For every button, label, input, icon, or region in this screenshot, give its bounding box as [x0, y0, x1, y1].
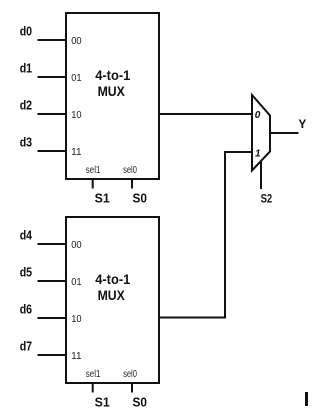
label U1 "4-to-1 MUX" — [95, 67, 130, 99]
svg-text:d4: d4 — [20, 228, 33, 243]
svg-text:10: 10 — [71, 314, 82, 325]
svg-text:d3: d3 — [20, 135, 32, 150]
wire d4 input — [38, 243, 67, 245]
svg-text:0: 0 — [255, 110, 261, 121]
wire d0 input — [38, 39, 67, 41]
svg-text:S1: S1 — [95, 396, 110, 410]
svg-text:00: 00 — [71, 240, 82, 251]
wire d5 input — [38, 280, 67, 282]
wire d3 input — [38, 150, 67, 152]
text cursor artifact — [305, 392, 308, 406]
svg-text:sel1: sel1 — [86, 369, 101, 380]
svg-text:4-to-1: 4-to-1 — [95, 271, 130, 287]
2-to-1 MUX U3 trapezoid — [252, 95, 270, 171]
svg-text:d2: d2 — [20, 98, 32, 113]
svg-text:00: 00 — [71, 36, 82, 47]
svg-text:11: 11 — [71, 351, 82, 362]
svg-text:MUX: MUX — [98, 287, 126, 303]
stub S1 (U1 sel1) — [92, 180, 94, 189]
4-to-1 MUX U2 body — [66, 217, 159, 383]
svg-text:S2: S2 — [261, 191, 273, 205]
svg-text:01: 01 — [71, 277, 82, 288]
svg-text:S0: S0 — [133, 192, 148, 206]
svg-text:sel1: sel1 — [86, 165, 101, 176]
wire d6 input — [38, 317, 67, 319]
wire U2 output to U3 input 1 — [159, 152, 252, 318]
svg-text:11: 11 — [71, 147, 82, 158]
label U2 "4-to-1 MUX" — [95, 271, 130, 303]
stub S0 (U1 sel0) — [131, 180, 133, 189]
stub S2 (U3 select) — [260, 162, 262, 189]
svg-text:4-to-1: 4-to-1 — [95, 67, 130, 83]
svg-text:d7: d7 — [20, 339, 32, 354]
svg-text:01: 01 — [71, 73, 82, 84]
4-to-1 MUX U1 body — [66, 13, 159, 179]
svg-text:Y: Y — [298, 117, 306, 131]
svg-text:S1: S1 — [95, 192, 110, 206]
svg-text:d6: d6 — [20, 302, 32, 317]
svg-text:1: 1 — [255, 148, 261, 159]
svg-text:MUX: MUX — [98, 83, 126, 99]
wire d1 input — [38, 76, 67, 78]
stub S0 (U2 sel0) — [131, 384, 133, 393]
svg-text:S0: S0 — [133, 396, 148, 410]
wire U1 output to U3 input 0 — [159, 113, 252, 115]
svg-text:d1: d1 — [20, 61, 32, 76]
wire d2 input — [38, 113, 67, 115]
svg-text:d0: d0 — [20, 24, 32, 39]
svg-text:d5: d5 — [20, 265, 32, 280]
wire d7 input — [38, 354, 67, 356]
svg-text:10: 10 — [71, 110, 82, 121]
output wire Y — [270, 132, 299, 134]
svg-text:sel0: sel0 — [123, 165, 137, 176]
svg-text:sel0: sel0 — [123, 369, 137, 380]
stub S1 (U2 sel1) — [92, 384, 94, 393]
